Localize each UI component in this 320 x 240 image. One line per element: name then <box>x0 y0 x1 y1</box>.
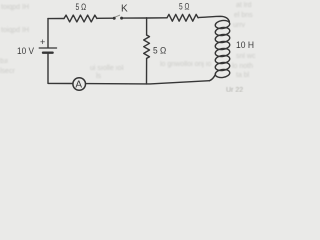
battery cell positive plate (long, top) <box>39 47 56 49</box>
svg-text:bɹi: bɹi <box>0 58 8 65</box>
resistor R2 (5 ohm, top-right) <box>167 14 198 21</box>
svg-text:at lrd: at lrd <box>236 2 252 9</box>
node/branch: middle vertical wire upper <box>146 18 148 35</box>
switch K contact dot right <box>120 17 123 20</box>
wire top-left horizontal <box>48 18 64 20</box>
svg-text:ta bl: ta bl <box>236 72 250 79</box>
faint bleed-through text top-right <box>233 2 253 29</box>
node/branch: middle vertical wire lower <box>146 58 148 84</box>
svg-text:5 Ω: 5 Ω <box>153 46 166 57</box>
faint mark bottom-right W22 <box>226 87 243 94</box>
faint bleed-through bottom-left <box>0 58 15 75</box>
wire R2 to inductor top <box>198 16 229 22</box>
svg-text:5 Ω: 5 Ω <box>179 2 190 12</box>
faint bleed-through band bottom-middle <box>90 61 211 80</box>
switch K contact dot left <box>113 17 116 20</box>
wire inductor bottom to bottom rail <box>210 75 216 81</box>
faint bleed-through text right-middle <box>232 53 256 79</box>
switch K blade (faint) <box>115 15 120 17</box>
svg-text:snl wc: snl wc <box>236 53 256 60</box>
wire ammeter to bottom-left corner <box>48 82 73 84</box>
wire bottom rail right (coil to junction B) <box>147 81 210 84</box>
svg-text:Ur 22: Ur 22 <box>226 87 243 92</box>
wire left rail bottom (battery to corner) <box>47 54 49 84</box>
paper background <box>0 0 274 92</box>
svg-text:toiqpd IH: toiqpd IH <box>1 27 29 34</box>
battery cell negative plate (short thick, bottom) <box>43 52 53 54</box>
wire left rail top (corner to battery) <box>47 19 49 48</box>
svg-text:10 H: 10 H <box>236 40 254 51</box>
svg-text:ls: ls <box>96 73 102 80</box>
svg-text:K: K <box>121 4 128 15</box>
svg-text:toiqpd IH: toiqpd IH <box>1 4 29 11</box>
ammeter A body circle <box>73 78 86 91</box>
svg-text:10 V: 10 V <box>17 46 35 57</box>
svg-text:lsecr: lsecr <box>0 68 15 75</box>
wire junction A to R2 <box>147 17 167 19</box>
svg-text:5 Ω: 5 Ω <box>76 2 87 12</box>
svg-text:urrv: urrv <box>233 22 246 29</box>
svg-text:lo gnwolloi orij io: lo gnwolloi orij io <box>160 61 211 68</box>
svg-text:+: + <box>40 37 45 47</box>
wire switch to junction A <box>123 17 147 19</box>
resistor R1 (5 ohm, top-left) <box>64 15 97 22</box>
svg-text:ui sıolle ıoʇ: ui sıolle ıoʇ <box>90 65 124 72</box>
svg-text:el bns: el bns <box>234 12 253 19</box>
faint bleed-through text top-left <box>1 4 29 34</box>
wire R1 to switch <box>97 17 113 19</box>
svg-text:A: A <box>75 80 82 91</box>
resistor R3 (5 ohm, middle vertical) <box>144 35 150 58</box>
inductor L1 10 H coil loops <box>215 20 231 79</box>
wire bottom rail middle (junction B to ammeter) <box>86 83 147 85</box>
svg-text:lo noth: lo noth <box>232 63 253 70</box>
